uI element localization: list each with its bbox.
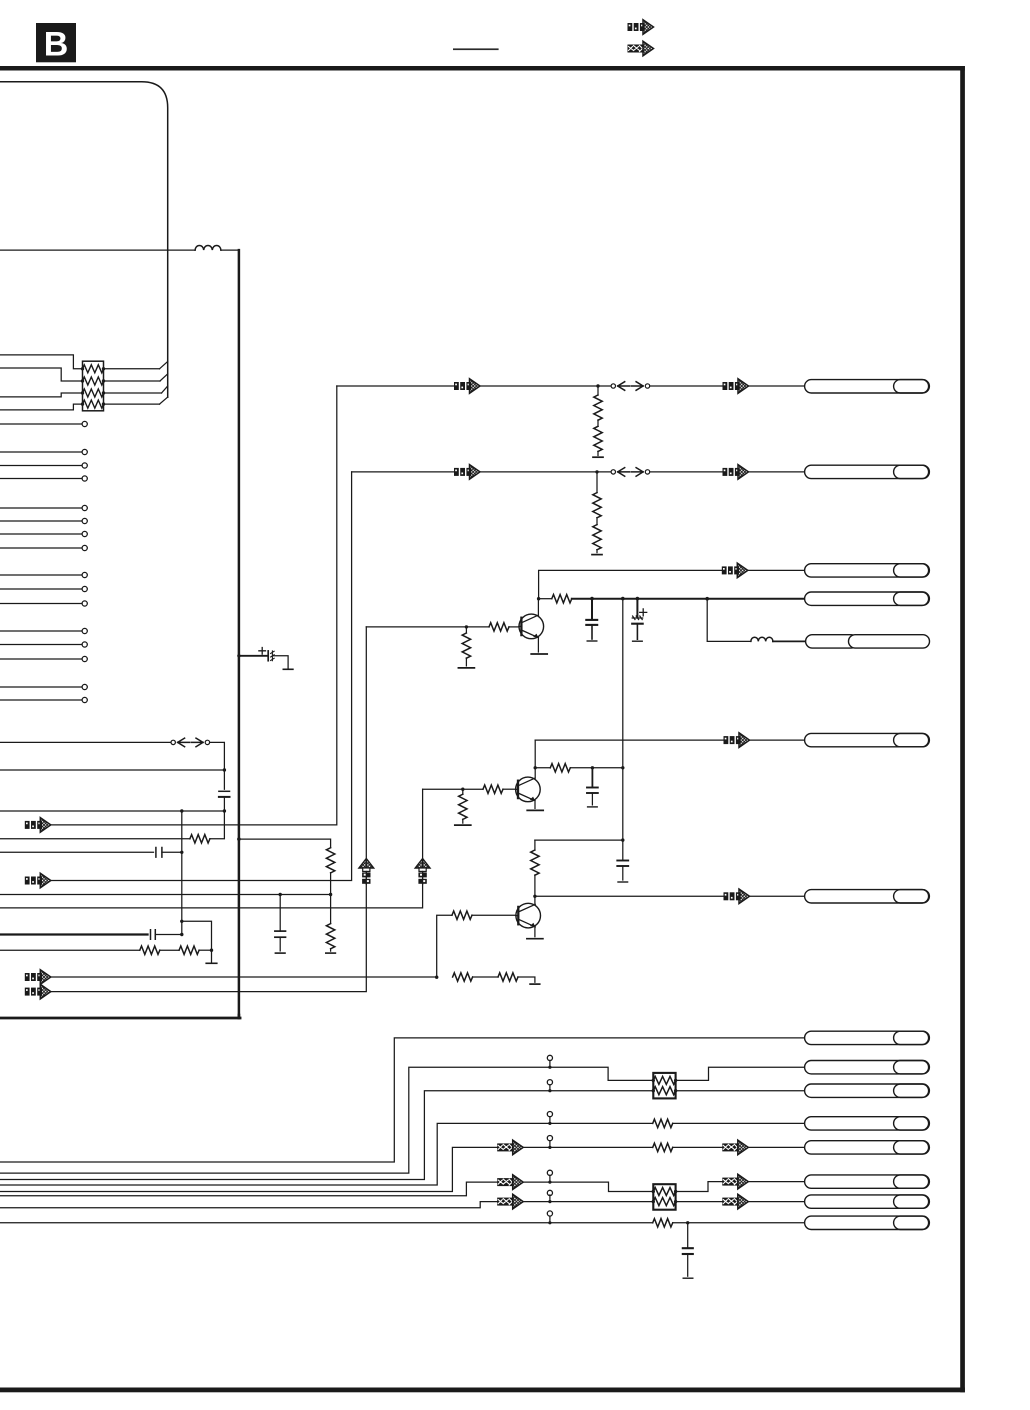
- capacitor C5 to ground: [687, 1223, 689, 1248]
- bottom bus wire 2: [0, 1067, 653, 1173]
- wire RN2 out1 to connector: [676, 1067, 805, 1080]
- wire RN1 out4 to bus: [104, 403, 160, 405]
- vertical net 181.8: [181, 811, 183, 935]
- wire R25 to R26: [473, 976, 498, 978]
- Q3 base resistor R12: [452, 911, 472, 919]
- row1 connector CN1: [805, 380, 930, 393]
- Q1 base wire: [366, 626, 489, 628]
- arrow B6b: [722, 1174, 748, 1189]
- Q2 emitter lead: [534, 801, 536, 809]
- pin stub 13: [0, 644, 82, 646]
- Q2 bias resistor R10: [462, 789, 464, 794]
- row2 divider resistor R3: [596, 472, 598, 493]
- wire to connector: [748, 1146, 804, 1148]
- up arrow marker 2: [415, 859, 430, 885]
- row5 junction riser: [707, 599, 751, 642]
- pin stub 1: [0, 423, 82, 425]
- arrow B5a: [497, 1140, 523, 1155]
- wire R9 to Q2 base: [503, 788, 516, 790]
- resistor R26: [498, 973, 518, 981]
- bottom bus wire 1: [0, 1038, 805, 1162]
- resistor R21 vertical: [326, 848, 334, 873]
- Q1 bias resistor R7: [465, 627, 467, 633]
- connector CN13: [805, 1175, 930, 1188]
- terminal circle T5: [547, 1136, 552, 1141]
- connector CN8: [805, 1031, 930, 1044]
- wire RN2 out2 to connector: [676, 1090, 805, 1092]
- capacitor C12 series: [0, 851, 154, 853]
- wire to connector: [748, 1181, 804, 1183]
- wire arrow1 to row1 riser: [51, 386, 337, 825]
- capacitor C4: [622, 840, 624, 860]
- wire RN3 out2 to arrow: [676, 1201, 723, 1203]
- pin stub 3: [0, 465, 82, 467]
- resistor row to gnd: R23 R24: [0, 949, 140, 951]
- bottom bus wire 5: [0, 1147, 497, 1191]
- row7 wire: [535, 839, 623, 841]
- Q2 base resistor R9: [483, 785, 503, 793]
- RN2 resistor 2: [653, 1087, 675, 1095]
- row3 wire to connector: [748, 569, 805, 571]
- inductor L2: [751, 637, 773, 641]
- RN1 resistor 4: [83, 400, 104, 408]
- wire to R14: [523, 1146, 653, 1148]
- R10 lower bar: [462, 819, 464, 823]
- Q3 collector lead: [534, 896, 536, 904]
- arrow B5b: [722, 1140, 748, 1155]
- R7 lower wire and bar: [465, 658, 467, 666]
- terminal circle T2: [547, 1055, 552, 1060]
- bus entry diagonal 2: [160, 374, 168, 381]
- Q1 emitter lead: [537, 638, 539, 652]
- input arrow 4: [25, 984, 51, 999]
- resistor network RN3 box: [653, 1184, 675, 1210]
- row2 wire left: [352, 471, 454, 473]
- row2 wire to arrow: [650, 471, 723, 473]
- pin stub 5: [0, 507, 82, 509]
- row1 wire to arrow: [650, 385, 723, 387]
- shield thick vertical: [238, 250, 241, 1017]
- transistor Q1: [519, 614, 544, 639]
- title underline: [453, 48, 499, 50]
- wire arrow2 to row2 riser: [51, 472, 352, 881]
- wire R11 to Q3 node: [534, 875, 536, 896]
- connector CN15: [805, 1216, 930, 1229]
- wire jumper to vertical: [210, 742, 225, 789]
- resistor R13: [653, 1119, 673, 1127]
- row8 wire: [535, 895, 724, 897]
- Q2 emitter bar: [527, 809, 543, 811]
- connector CN9: [805, 1061, 930, 1074]
- pin stub 11: [0, 603, 82, 605]
- resistor R22 vertical: [326, 924, 334, 949]
- jumper row: wire: [0, 741, 171, 743]
- pin stub 6: [0, 520, 82, 522]
- Q1 emitter bar: [531, 653, 547, 655]
- RN1 pin dots: [81, 367, 105, 406]
- wire R14 to arrow: [673, 1146, 723, 1148]
- wire R6 to Q1 base: [509, 626, 519, 628]
- wire node row 770: [0, 769, 224, 771]
- connector CN11: [805, 1117, 930, 1130]
- input arrow 2: [25, 873, 51, 888]
- bottom bus wire 6: [0, 1182, 497, 1196]
- bus entry diagonal 3: [162, 386, 168, 393]
- capacitor C1: [591, 599, 593, 619]
- wire R22 to bar: [330, 949, 332, 952]
- row4 thick rail: [572, 598, 805, 600]
- row5 connector CN5: [806, 635, 930, 648]
- pin stub 7: [0, 533, 82, 535]
- bottom bus wire 7: [0, 1202, 497, 1208]
- pin stub 9: [0, 574, 82, 576]
- row3 wire: [539, 570, 722, 598]
- resistor R25: [453, 973, 473, 981]
- row2 output arrow: [723, 465, 749, 480]
- jumper symbol J1: [171, 738, 210, 747]
- ground bar 963: [206, 962, 217, 964]
- resistor network RN2 box: [653, 1073, 675, 1099]
- shield thick bottom: [0, 1017, 240, 1020]
- wire IC pin to RN1 in3: [0, 393, 83, 397]
- row1 divider terminal bar: [597, 451, 599, 455]
- row2 wire to node: [480, 471, 611, 473]
- transistor Q2: [516, 777, 541, 802]
- terminal circle T8: [547, 1211, 552, 1216]
- up arrow marker 1: [359, 859, 374, 885]
- row1 output arrow: [723, 379, 749, 394]
- resistor R20 row: [0, 838, 190, 840]
- title signal arrow 2: [628, 41, 654, 56]
- unconnected IC pin stubs with terminal circles: [0, 421, 87, 702]
- pin stub 16: [0, 699, 82, 701]
- bottom bus wire 8: [0, 1222, 653, 1224]
- connector CN14: [805, 1195, 930, 1208]
- RN3 resistor 2: [653, 1198, 675, 1206]
- wire arrow4 to Q1 base riser: [51, 627, 367, 992]
- RN1 resistor 1: [83, 365, 104, 373]
- frame top border: [0, 66, 965, 71]
- svg-text:B: B: [44, 26, 69, 64]
- row2 arrow: [454, 465, 480, 480]
- bottom bus wire 3: [0, 1091, 653, 1180]
- terminal circle T7: [547, 1190, 552, 1195]
- wire IC pin to RN1 in4: [0, 404, 83, 410]
- row1 wire left: [337, 385, 454, 387]
- wire RN1 out1 to bus: [104, 368, 160, 370]
- row2 divider terminal bar: [596, 550, 598, 553]
- terminal circle T4: [547, 1112, 552, 1117]
- row2 connector CN2: [805, 465, 930, 478]
- resistor R15: [653, 1219, 673, 1227]
- bus entry diagonal 4: [160, 397, 168, 404]
- capacitor C3: [591, 768, 593, 788]
- terminal circle T3: [547, 1080, 552, 1085]
- bus entry diagonal 1: [160, 362, 168, 369]
- wire R26 to gnd stub: [518, 977, 535, 982]
- row 921 tap wire: [182, 921, 212, 962]
- connector CN10: [805, 1084, 930, 1097]
- Q1 base resistor R6: [489, 623, 509, 631]
- wire to inductor: [0, 249, 195, 251]
- wire shield tap to R21: [239, 839, 331, 848]
- arrow B7b: [722, 1194, 748, 1209]
- wire R15 to connector: [673, 1222, 805, 1224]
- row2 divider resistor R4: [596, 518, 598, 525]
- pin stub 15: [0, 686, 82, 688]
- thick signal wire w/ series cap C14: [0, 933, 148, 935]
- frame right border: [960, 66, 965, 1392]
- wire RN3 out1 to arrow: [676, 1182, 723, 1192]
- row8 output arrow: [724, 889, 750, 904]
- wire IC pin to RN1 in1: [0, 355, 83, 369]
- row2 jumper J3: [611, 468, 650, 477]
- Q1 collector load resistor R5: [539, 598, 552, 600]
- Q3 emitter bar: [527, 938, 543, 940]
- capacitor C13 to ground: [279, 895, 281, 932]
- arrow B7a: [497, 1194, 523, 1209]
- frame bottom border: [0, 1388, 965, 1393]
- terminal circle T6: [547, 1170, 552, 1175]
- Q3 feed resistor R11: [534, 840, 536, 850]
- pin stub 8: [0, 547, 82, 549]
- wire jog to RN3: [523, 1182, 653, 1191]
- resistor R14: [653, 1143, 673, 1151]
- transistor Q3: [516, 903, 541, 928]
- title signal arrow 1: [628, 20, 654, 35]
- pin stub 2: [0, 451, 82, 453]
- RN3 resistor 1: [653, 1188, 675, 1196]
- wire R13 to connector: [673, 1122, 805, 1124]
- wire R21 lower: [330, 873, 332, 924]
- IC bus with rounded corner: [0, 82, 168, 398]
- wire net A: [0, 894, 331, 896]
- row1 wire to connector: [749, 385, 805, 387]
- rail drop net: [622, 599, 624, 841]
- shield corner stub: [238, 1015, 241, 1018]
- pin stub 4: [0, 478, 82, 480]
- row2 wire to connector: [749, 471, 805, 473]
- wire arrow3 to Q3 base net: [51, 976, 437, 978]
- Q3 base wire: [437, 915, 452, 977]
- input arrow 3: [25, 970, 51, 985]
- resistor network RN1 box: [83, 361, 104, 411]
- row1 jumper J2: [611, 382, 650, 391]
- input arrow 1: [25, 818, 51, 833]
- electrolytic cap C2: [636, 599, 638, 617]
- row8 connector CN7: [805, 890, 930, 903]
- row8 wire to connector: [750, 895, 805, 897]
- row6 connector CN6: [805, 733, 930, 746]
- Q2 collector resistor R8: [535, 767, 550, 769]
- inductor L1: [195, 246, 221, 251]
- row1 wire to node: [480, 385, 611, 387]
- row1 divider resistor R1: [597, 386, 599, 395]
- RN1 resistor 3: [83, 389, 104, 397]
- Q1 collector lead: [537, 599, 539, 616]
- Q2 base wire: [423, 788, 483, 790]
- electrolytic cap C10 on shield line: [237, 648, 293, 670]
- row6 wire: [535, 739, 723, 741]
- RN2 resistor 1: [653, 1076, 675, 1084]
- row3 connector CN3: [805, 564, 930, 577]
- pin stub 10: [0, 588, 82, 590]
- wire L2 to connector: [773, 640, 806, 642]
- wire to RN3 row2: [523, 1201, 653, 1203]
- Q2 collector node drop: [534, 740, 536, 778]
- RN1 resistor 2: [83, 377, 104, 385]
- wire inductor to shield line: [221, 249, 239, 251]
- row1 divider resistor R2: [597, 420, 599, 426]
- page label B badge: [36, 23, 76, 64]
- wire net B to Q2 base riser: [0, 789, 423, 908]
- wire IC pin to RN1 in2: [0, 368, 83, 381]
- wire R12 to Q3 base: [472, 914, 516, 916]
- wire R8 to C3: [570, 767, 623, 769]
- pin stub 14: [0, 658, 82, 660]
- row1 arrow: [454, 379, 480, 394]
- row3 output arrow: [722, 563, 748, 578]
- wire node row 811: [0, 810, 224, 812]
- pin stub 12: [0, 630, 82, 632]
- wire RN1 out3 to bus: [104, 392, 162, 394]
- row4 connector CN4: [805, 592, 930, 605]
- row6 wire to connector: [750, 739, 805, 741]
- Q3 emitter lead: [534, 927, 536, 937]
- row6 output arrow: [724, 733, 750, 748]
- wire to connector: [748, 1201, 804, 1203]
- arrow B6a: [497, 1175, 523, 1190]
- bottom bus wire 4: [0, 1123, 653, 1185]
- wire RN1 out2 to bus: [104, 380, 161, 382]
- capacitor C11 inline: [219, 790, 230, 792]
- connector CN12: [805, 1141, 930, 1154]
